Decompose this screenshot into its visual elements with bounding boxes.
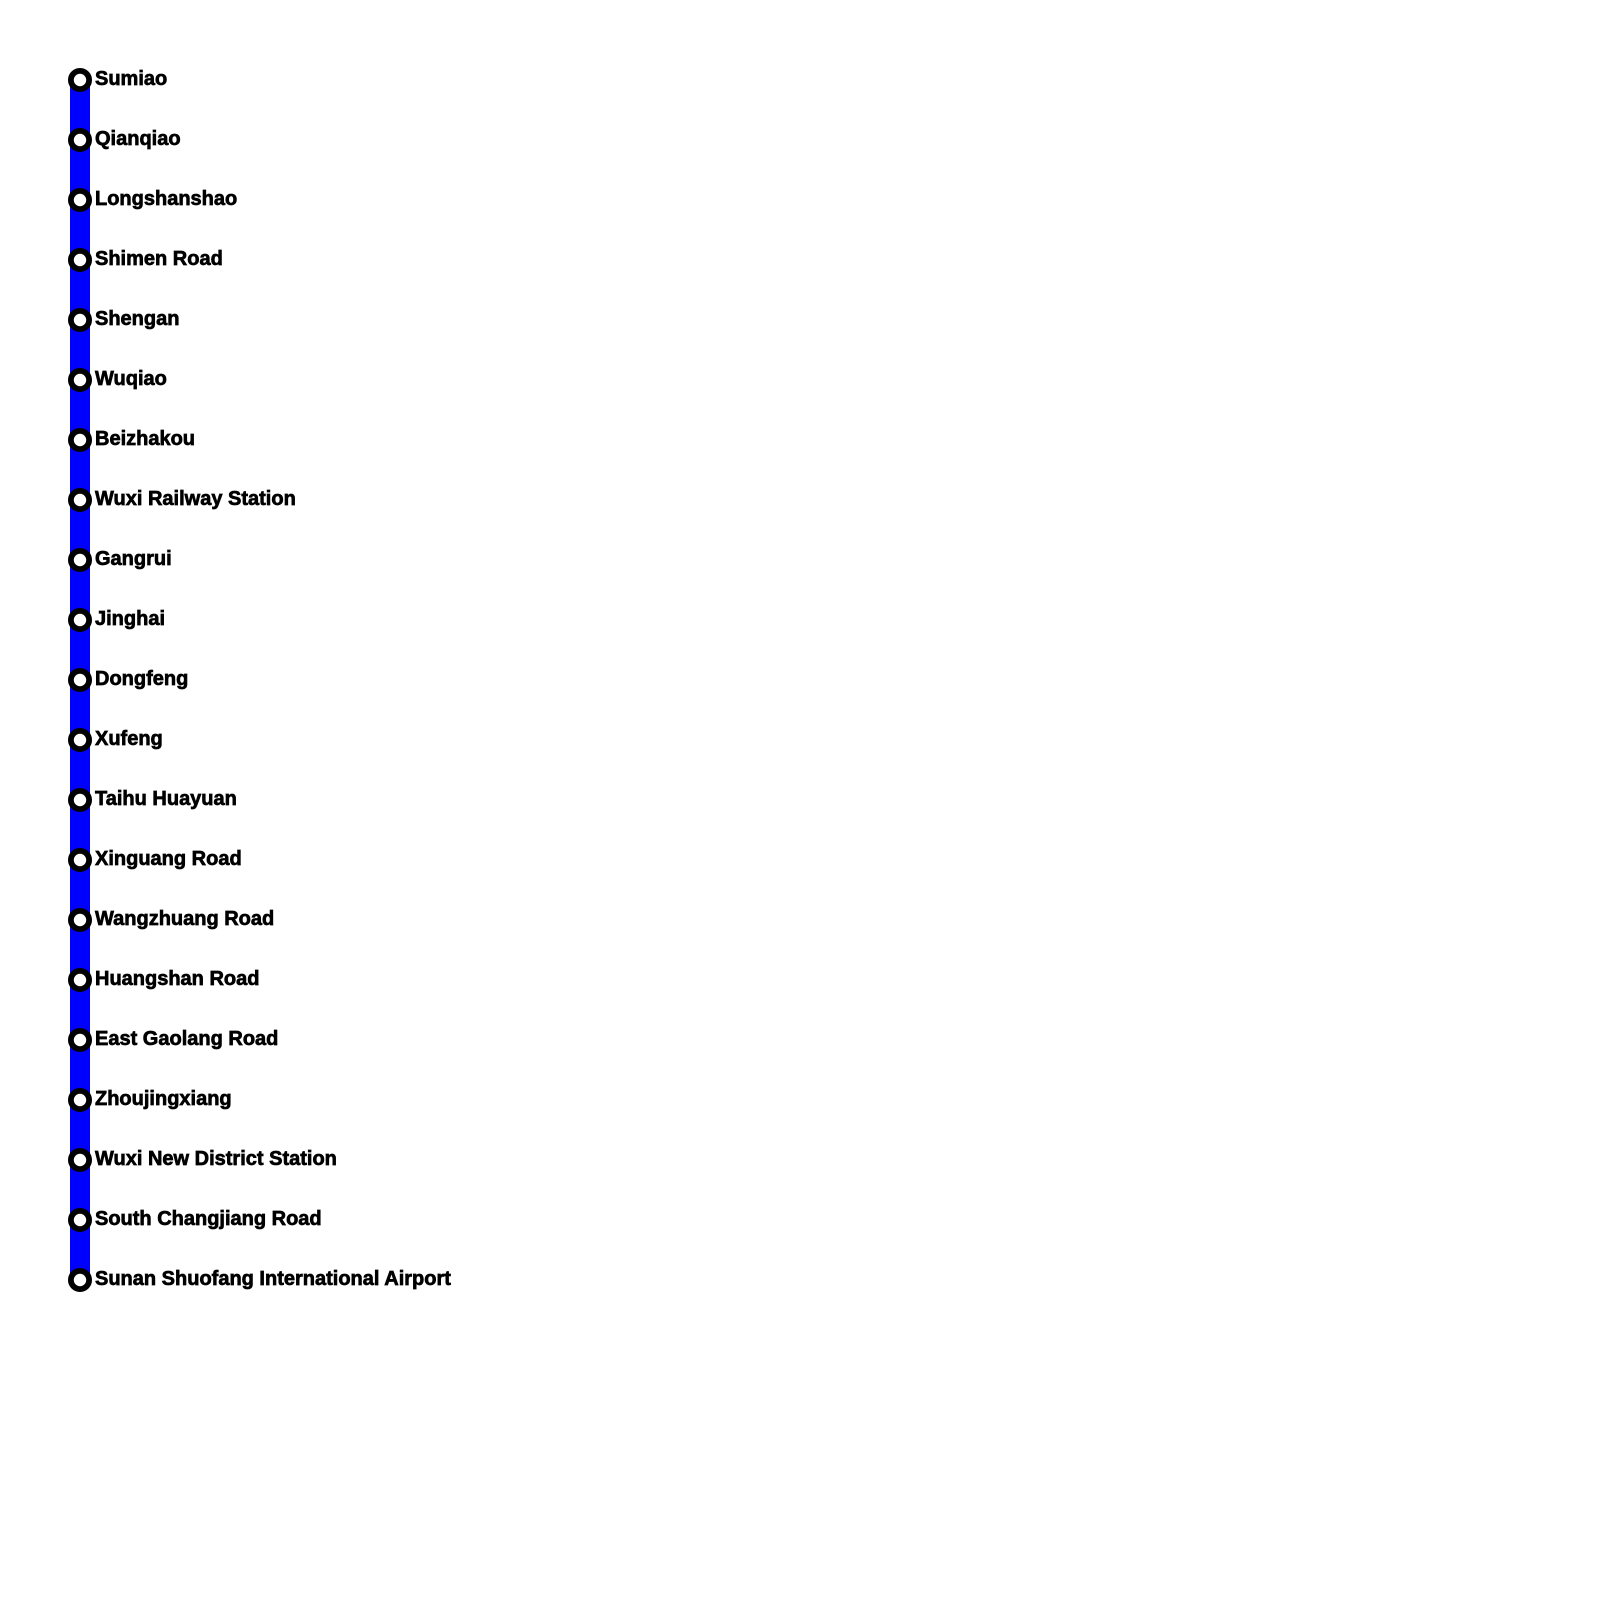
station Wangzhuang Road [71,908,274,930]
station Shimen Road [71,248,223,270]
station Zhoujingxiang [71,1088,232,1110]
svg-text:Jinghai: Jinghai [95,608,165,630]
station Longshanshao [71,188,237,210]
svg-text:South Changjiang Road: South Changjiang Road [95,1208,322,1230]
station Huangshan Road [71,968,260,990]
svg-text:Qianqiao: Qianqiao [95,128,181,150]
station Xinguang Road [71,848,242,870]
svg-text:East Gaolang Road: East Gaolang Road [95,1028,278,1050]
station Xufeng [71,728,163,750]
station Wuxi New District Station [71,1148,337,1170]
svg-text:Longshanshao: Longshanshao [95,188,237,210]
svg-text:Beizhakou: Beizhakou [95,428,195,450]
station Wuqiao [71,368,167,390]
station Sumiao [71,68,167,90]
station Sunan Shuofang International Airport [71,1268,451,1290]
svg-text:Xufeng: Xufeng [95,728,163,750]
svg-text:Xinguang Road: Xinguang Road [95,848,242,870]
station East Gaolang Road [71,1028,278,1050]
station Shengan [71,308,180,330]
svg-text:Wangzhuang Road: Wangzhuang Road [95,908,274,930]
svg-text:Zhoujingxiang: Zhoujingxiang [95,1088,232,1110]
svg-text:Wuxi Railway Station: Wuxi Railway Station [95,488,296,510]
station Gangrui [71,548,172,570]
station Qianqiao [71,128,181,150]
station Wuxi Railway Station [71,488,296,510]
station Taihu Huayuan [71,788,237,810]
svg-text:Taihu Huayuan: Taihu Huayuan [95,788,237,810]
svg-text:Wuqiao: Wuqiao [95,368,167,390]
svg-text:Huangshan Road: Huangshan Road [95,968,259,990]
svg-text:Shengan: Shengan [95,308,179,330]
station South Changjiang Road [71,1208,322,1230]
svg-text:Sunan Shuofang International A: Sunan Shuofang International Airport [95,1268,451,1290]
station Dongfeng [71,668,188,690]
svg-text:Wuxi New District Station: Wuxi New District Station [95,1148,337,1170]
svg-text:Sumiao: Sumiao [95,68,167,90]
svg-text:Dongfeng: Dongfeng [95,668,188,690]
svg-text:Gangrui: Gangrui [95,548,172,570]
svg-text:Shimen Road: Shimen Road [95,248,223,270]
station Jinghai [71,608,165,630]
metro line (blue) [70,80,90,1280]
station Beizhakou [71,428,195,450]
